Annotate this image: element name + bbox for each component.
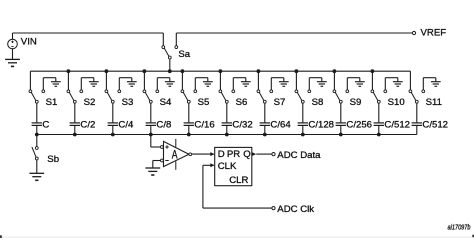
node ADC Clk terminal [272, 204, 314, 215]
node ADC Data terminal [272, 150, 321, 161]
wire switch S7 pole to capacitor [264, 103, 266, 123]
junction cell S3 stub on switched rail [105, 69, 109, 73]
wire comparator output to D input [192, 153, 211, 155]
switch S10 [371, 90, 405, 108]
wire ADC Clk to CLK input [203, 165, 272, 208]
flip-flop U1 (D latch) [215, 147, 252, 185]
wire switch S9 pole to capacitor [340, 103, 342, 123]
junction capacitor C on common rail [35, 133, 39, 137]
wire rail stub to switch S5 [181, 71, 183, 90]
wire common rail to switch Sb [36, 135, 38, 147]
wire switch S5 ground branch [195, 78, 208, 90]
wire capacitor C/128 to common rail [302, 125, 304, 134]
switch S3 [105, 90, 133, 108]
ground (cell S11) [431, 82, 441, 87]
wire capacitor C/2 to common rail [74, 125, 76, 134]
switch S8 [295, 90, 323, 108]
switch S11 [409, 90, 442, 108]
svg-text:S6: S6 [236, 97, 248, 108]
ground (comparator inverting input) [145, 168, 160, 175]
svg-text:PR: PR [227, 149, 240, 160]
wire switch S2 ground branch [81, 78, 94, 90]
svg-text:C/512: C/512 [422, 120, 448, 131]
wire rail stub to switch S9 [333, 71, 335, 90]
wire switch S4 pole to capacitor [150, 103, 152, 123]
svg-text:S5: S5 [198, 97, 210, 108]
junction capacitor C/128 on common rail [301, 133, 305, 137]
svg-text:VIN: VIN [21, 37, 37, 48]
capacitor C/512 (cell 11) [412, 120, 448, 131]
wire rail stub to switch S11 [409, 71, 411, 90]
wire VIN to rail [13, 33, 164, 46]
svg-text:Q: Q [243, 149, 250, 160]
wire switch S3 ground branch [119, 78, 132, 90]
wire rail stub to switch S3 [105, 71, 107, 90]
wire switch S6 ground branch [233, 78, 246, 90]
wire common rail to comparator non-inverting input [151, 135, 161, 148]
wire switch S1 ground branch [43, 78, 56, 90]
svg-text:ai17097b: ai17097b [448, 225, 471, 232]
capacitor C/64 (cell 7) [260, 120, 292, 131]
capacitor C/16 (cell 5) [184, 120, 215, 131]
junction cell S7 stub on switched rail [257, 69, 261, 73]
svg-text:ADC Data: ADC Data [277, 150, 321, 161]
wire switch S3 pole to capacitor [112, 103, 114, 123]
capacitor C/256 (cell 9) [336, 120, 372, 131]
svg-text:S3: S3 [122, 97, 134, 108]
switch S7 [257, 90, 285, 108]
wire switch S7 ground branch [271, 78, 284, 90]
svg-text:C/8: C/8 [156, 120, 171, 131]
svg-text:C/2: C/2 [80, 120, 95, 131]
wire switch S5 pole to capacitor [188, 103, 190, 123]
wire capacitor C/512 to common rail [378, 125, 380, 134]
svg-text:S10: S10 [388, 97, 405, 108]
junction capacitor C/2 on common rail [73, 133, 77, 137]
ground (cell S1) [51, 82, 61, 87]
wire rail stub to switch S2 [67, 71, 69, 90]
wire capacitor C/512 to common rail [416, 125, 418, 134]
junction capacitor C/4 on common rail [111, 133, 115, 137]
capacitor C/128 (cell 8) [298, 120, 334, 131]
svg-text:D: D [218, 149, 225, 160]
wire comparator inverting input to ground [153, 161, 161, 169]
junction capacitor C/8 on common rail [149, 133, 153, 137]
svg-text:S9: S9 [350, 97, 362, 108]
arrow out of Q output [252, 152, 256, 156]
junction cell S5 stub on switched rail [181, 69, 185, 73]
svg-text:S8: S8 [312, 97, 324, 108]
ground (cell S5) [203, 82, 213, 87]
wire switched rail [30, 70, 410, 72]
wire rail stub to switch S1 [29, 71, 31, 90]
junction capacitor C/64 on common rail [263, 133, 267, 137]
capacitor C/32 (cell 6) [222, 120, 253, 131]
node VREF terminal [412, 28, 446, 39]
svg-text:CLK: CLK [218, 161, 237, 172]
wire switch S11 ground branch [423, 78, 436, 90]
svg-text:C/16: C/16 [194, 120, 214, 131]
wire capacitor C/256 to common rail [340, 125, 342, 134]
junction cell S2 stub on switched rail [67, 69, 71, 73]
svg-text:C/32: C/32 [232, 120, 252, 131]
junction capacitor C/16 on common rail [187, 133, 191, 137]
wire Sb to ground [36, 160, 38, 173]
junction cell S6 stub on switched rail [219, 69, 223, 73]
ground (VIN source) [5, 49, 20, 67]
svg-text:CLR: CLR [229, 175, 248, 186]
wire capacitor C/16 to common rail [188, 125, 190, 134]
svg-text:C/128: C/128 [308, 120, 334, 131]
wire rail stub to switch S4 [143, 71, 145, 90]
svg-text:Sa: Sa [178, 49, 190, 60]
wire switch S11 pole to capacitor [416, 103, 418, 123]
svg-text:A: A [172, 150, 178, 162]
switch S1 [29, 90, 57, 108]
wire capacitor common rail [37, 134, 417, 136]
svg-text:S4: S4 [160, 97, 172, 108]
svg-text:C: C [42, 120, 49, 131]
ground (cell S8) [317, 82, 327, 87]
svg-text:C/4: C/4 [118, 120, 134, 131]
wire rail stub to switch S8 [295, 71, 297, 90]
wire Sa pole to switched rail [169, 59, 171, 71]
wire Sa to VREF terminal [176, 33, 412, 46]
capacitor C (cell 1) [32, 120, 50, 131]
wire rail stub to switch S10 [371, 71, 373, 90]
wire capacitor C/4 to common rail [112, 125, 114, 134]
junction Sa on switched rail [168, 69, 172, 73]
ground (cell S7) [279, 82, 289, 87]
capacitor C/4 (cell 3) [108, 120, 134, 131]
junction capacitor C/512 on common rail [377, 133, 381, 137]
junction cell S9 stub on switched rail [333, 69, 337, 73]
wire switch S1 pole to capacitor [36, 103, 38, 123]
junction cell S8 stub on switched rail [295, 69, 299, 73]
wire switch S6 pole to capacitor [226, 103, 228, 123]
wire switch S10 ground branch [385, 78, 398, 90]
wire capacitor C to common rail [36, 125, 38, 134]
wire switch S8 pole to capacitor [302, 103, 304, 123]
svg-text:S7: S7 [274, 97, 286, 108]
capacitor C/2 (cell 2) [70, 120, 96, 131]
switch Sa [162, 46, 191, 61]
junction capacitor C/256 on common rail [339, 133, 343, 137]
svg-text:S11: S11 [426, 97, 442, 108]
svg-text:VREF: VREF [421, 28, 447, 39]
wire rail stub to switch S7 [257, 71, 259, 90]
wire switch S10 pole to capacitor [378, 103, 380, 123]
ground (cell S2) [89, 82, 99, 87]
switch S9 [333, 90, 361, 108]
wire switch S4 ground branch [157, 78, 170, 90]
wire Q to ADC Data terminal [256, 153, 272, 155]
ground (cell S9) [355, 82, 365, 87]
wire rail stub to switch S6 [219, 71, 221, 90]
ground (Sb) [29, 173, 44, 180]
svg-text:C/512: C/512 [384, 120, 410, 131]
capacitor C/512 (cell 10) [374, 120, 410, 131]
svg-text:Sb: Sb [47, 154, 59, 165]
wire capacitor C/32 to common rail [226, 125, 228, 134]
ground (cell S4) [165, 82, 175, 87]
svg-text:ADC Clk: ADC Clk [277, 204, 314, 215]
svg-text:S2: S2 [84, 97, 96, 108]
junction cell S4 stub on switched rail [143, 69, 147, 73]
arrow into CLK input [210, 163, 214, 167]
switch S4 [143, 90, 172, 108]
voltage source VIN [8, 37, 37, 49]
switch S2 [67, 90, 95, 108]
ground (cell S3) [127, 82, 137, 87]
op-amp comparator A [161, 139, 192, 170]
svg-text:C/64: C/64 [270, 120, 291, 131]
wire switch S8 ground branch [309, 78, 322, 90]
switch S6 [219, 90, 247, 108]
svg-text:C/256: C/256 [346, 120, 372, 131]
arrow into D input [210, 152, 214, 156]
capacitor C/8 (cell 4) [146, 120, 172, 131]
switch Sb [32, 147, 59, 165]
switch S5 [181, 90, 209, 108]
wire switch S2 pole to capacitor [74, 103, 76, 123]
wire capacitor C/64 to common rail [264, 125, 266, 134]
ground (cell S6) [241, 82, 251, 87]
junction capacitor C/32 on common rail [225, 133, 229, 137]
wire switch S9 ground branch [347, 78, 360, 90]
svg-text:S1: S1 [46, 97, 58, 108]
wire capacitor C/8 to common rail [150, 125, 152, 134]
ground (cell S10) [393, 82, 403, 87]
junction cell S10 stub on switched rail [371, 69, 375, 73]
